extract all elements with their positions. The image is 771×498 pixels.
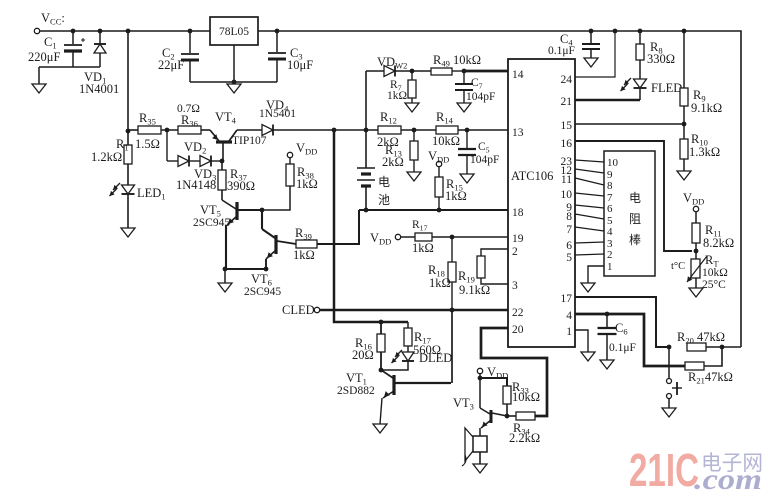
svg-text:2: 2 [607,249,613,261]
svg-text:1: 1 [566,326,572,338]
svg-text:VT4: VT4 [215,110,237,126]
svg-text:3: 3 [512,280,518,292]
wire pin 17 path [575,297,669,347]
svg-text:1: 1 [607,261,613,273]
wire VDD to R33 and VT3 base [479,374,481,378]
resistor network bar body [604,151,655,276]
svg-text:R49 10kΩ: R49 10kΩ [433,53,481,69]
wire VD4-node feed down to R16 R17 [334,130,408,322]
svg-text:0.1μF: 0.1μF [609,342,636,354]
svg-text:22: 22 [512,307,524,319]
ground below C1 [32,84,46,93]
svg-text:LED1: LED1 [137,186,166,202]
svg-text:21: 21 [561,96,573,108]
ground below VT5 emitter [218,283,232,292]
LED LED1 [122,185,135,194]
svg-text:R36: R36 [181,113,198,129]
capacitor C2 [189,31,191,53]
svg-text:25°C: 25°C [702,279,726,291]
resistor R12 [378,126,401,134]
svg-text:1kΩ: 1kΩ [445,189,467,203]
resistor R33 [503,386,511,404]
ground below pin 1 [581,352,595,361]
wire C1-VD1 bottom to ground [39,66,100,68]
svg-text:VDD: VDD [428,149,449,165]
resistor R11 [695,212,697,223]
wire collector node to R38 [262,186,290,210]
svg-text:8.2kΩ: 8.2kΩ [703,236,734,250]
diode VD2 [166,130,168,161]
svg-text:ATC106: ATC106 [511,169,553,183]
svg-text:阻: 阻 [629,212,641,226]
svg-text:C5: C5 [478,141,490,155]
node VDD terminal above R15 [436,161,441,166]
svg-text:2SD882: 2SD882 [337,385,375,397]
IC U1 ATC106 body [508,59,575,347]
wire pin 20 loop to R34 [481,328,547,416]
node VT5 collector junction [260,208,265,213]
diode VD4 [262,125,273,136]
resistor R19 [477,256,485,278]
capacitor C5 [466,130,468,148]
svg-text:VDD: VDD [683,191,704,207]
regulator U 78L05 [210,17,258,45]
svg-text:1kΩ: 1kΩ [293,248,315,262]
svg-text:13: 13 [512,127,524,139]
svg-text:C6: C6 [615,321,628,337]
wire to IC pin 14 [464,70,508,73]
resistor R34 [507,415,516,417]
svg-text:20Ω: 20Ω [352,348,374,362]
svg-text:14: 14 [512,69,524,81]
svg-text:1kΩ: 1kΩ [429,276,451,290]
svg-text:C1: C1 [44,35,57,51]
svg-text:10kΩ: 10kΩ [432,134,460,148]
resistor R36 [178,126,201,134]
wire CLED junction down to VT1 collector [451,310,453,383]
capacitor C3 [276,31,278,52]
resistor R8 [638,29,643,34]
svg-text:17: 17 [561,293,573,305]
svg-text:4: 4 [566,310,572,322]
wire top rail left segment [40,30,210,32]
wire left rail [127,31,129,131]
ground below R10 [677,171,691,180]
svg-text:5: 5 [566,252,572,264]
resistor R15 [438,167,440,177]
svg-text:1kΩ: 1kΩ [296,177,318,191]
LED DLED [402,352,414,361]
wire battery positive riser [365,71,367,168]
resistor R20 [667,345,672,350]
svg-text:R20 47kΩ: R20 47kΩ [677,330,725,346]
svg-text:电: 电 [378,175,390,189]
wire C2-C3 bottom with regulator ground stub [190,81,277,83]
svg-text:VT3: VT3 [453,396,474,412]
wire pin 4 path [575,314,685,366]
resistor R37 [221,161,223,170]
svg-text:2SC945: 2SC945 [244,286,281,298]
wire VD4 to R12 [273,129,378,131]
svg-text:2.2kΩ: 2.2kΩ [509,431,540,445]
svg-text:10kΩ: 10kΩ [512,390,540,404]
svg-text:CLED: CLED [282,303,315,317]
node CLED terminal [314,307,319,312]
svg-text:2SC945: 2SC945 [193,217,230,229]
node VCC terminal [34,28,39,33]
svg-text:9.1kΩ: 9.1kΩ [691,101,722,115]
svg-text:104pF: 104pF [466,91,495,103]
svg-text:电: 电 [629,191,641,205]
svg-text:R14: R14 [436,110,454,126]
node VDD terminal above R11 [693,206,698,211]
resistor R21 [685,362,704,370]
svg-text:t°C: t°C [671,261,685,272]
resistor R35 [128,129,138,131]
svg-text:1kΩ: 1kΩ [412,241,434,255]
node VDD terminal VT3 [477,368,482,373]
svg-text:9.1kΩ: 9.1kΩ [459,283,490,297]
svg-text:VDD: VDD [296,141,317,157]
diode VD3 [189,160,200,162]
svg-text:24: 24 [561,74,573,86]
ground below bar pin1 [581,283,595,292]
svg-text:10: 10 [607,157,619,169]
resistor R17 560 [407,322,409,328]
ground below RT [689,288,703,297]
svg-text:21IC: 21IC [629,444,699,496]
svg-text:18: 18 [512,207,524,219]
thermistor RT [695,251,697,259]
speaker [473,436,487,452]
capacitor C7 [463,71,465,83]
resistor R14 [436,126,458,134]
svg-text:棒: 棒 [629,233,641,247]
svg-text:1.2kΩ: 1.2kΩ [91,150,122,164]
wires IC to resistor bar [575,160,604,162]
resistor R16 [380,322,382,334]
ground below C4 [584,58,598,67]
capacitor C6 [606,314,608,327]
resistor R10 [683,124,685,139]
svg-text:6: 6 [566,240,572,252]
svg-text:.com: .com [694,463,762,496]
svg-text:2: 2 [512,246,518,258]
svg-text:1N4001: 1N4001 [79,82,119,96]
capacitor C4 [589,29,594,34]
switch S [668,347,670,378]
node VDD terminal above R38 [287,152,292,157]
ground below C6 [600,360,614,369]
svg-text:R12: R12 [380,110,397,126]
svg-text:10μF: 10μF [287,58,313,72]
ground below R13 [407,172,421,181]
svg-text:池: 池 [378,193,390,207]
wire VT4 collector to VD4 [237,129,262,131]
svg-text:10kΩ: 10kΩ [702,267,728,279]
svg-text:8: 8 [566,211,572,223]
svg-text:R35: R35 [139,111,156,127]
resistor R38 [286,164,294,186]
svg-text:FLED: FLED [651,81,682,95]
svg-text:6: 6 [607,203,613,215]
svg-text:R39: R39 [295,226,312,242]
wire CLED row to IC pin 22 [320,309,508,311]
svg-text:R2147kΩ: R2147kΩ [688,370,733,386]
wire pin 1 to ground [575,330,588,352]
resistor R18 [451,237,453,262]
resistor R17 1k [401,236,415,238]
ground below 78L05 [227,84,241,93]
svg-text:15: 15 [561,120,573,132]
resistor R7 [411,71,413,80]
transistor VT6 2SC945 [261,210,263,229]
svg-text:390Ω: 390Ω [227,179,255,193]
resistor R9 [682,29,687,34]
svg-text:VCC:: VCC: [41,11,65,27]
wire VT5/VT6 emitters to ground [224,268,266,270]
diode VD1 [99,31,101,43]
svg-text:VDD: VDD [370,231,391,247]
svg-text:TIP107: TIP107 [232,135,267,147]
ground below LED1 [121,228,135,237]
svg-text:VDW2: VDW2 [377,55,407,71]
svg-text:20: 20 [512,324,524,336]
wire bar pin1 to ground [588,266,604,283]
svg-text:11: 11 [561,174,572,186]
svg-text:10: 10 [561,189,573,201]
svg-text:104pF: 104pF [470,154,499,166]
ground below VT1 [373,424,387,433]
wire pin 24 to top rail [613,29,618,34]
svg-text:16: 16 [561,138,573,150]
svg-text:R17: R17 [412,219,428,233]
wire R39 right to battery-minus row [317,210,359,244]
wire top rail right segment to right rail corner [258,31,741,347]
resistor R1 [127,131,129,145]
transistor VT5 2SC945 [222,200,236,209]
svg-text:330Ω: 330Ω [647,52,675,66]
transistor VT3 [480,408,490,414]
svg-text:2kΩ: 2kΩ [382,155,404,169]
resistor R13 [413,130,415,141]
wire pin 18 row [359,209,508,211]
svg-text:1.3kΩ: 1.3kΩ [689,145,720,159]
capacitor C1 [72,31,74,44]
svg-text:1N4148: 1N4148 [176,178,216,192]
svg-text:4: 4 [607,226,613,238]
svg-text:DLED: DLED [419,351,452,365]
transistor VT4 TIP107 [210,130,219,141]
resistor R49 [395,70,431,72]
wire pin 21 row [575,99,640,102]
wire pin 2 jog [481,249,508,256]
svg-text:22μF: 22μF [158,58,184,72]
svg-text:19: 19 [512,233,524,245]
ground below C5 [460,174,474,183]
ground below speaker [473,464,487,473]
battery GB [357,167,375,169]
LED FLED [634,79,647,88]
svg-text:8: 8 [607,180,613,192]
ground below switch [662,408,676,417]
transistor VT1 2SD882 [381,370,393,378]
svg-text:C7: C7 [471,77,483,91]
svg-text:VD2: VD2 [184,140,206,156]
svg-text:220μF: 220μF [28,50,60,64]
wire pin 15 row [575,123,684,125]
svg-text:78L05: 78L05 [219,26,249,38]
wire pin 16 to thermistor junction [575,141,692,251]
resistor R39 [296,240,317,248]
svg-text:1N5401: 1N5401 [259,108,296,120]
ground below R7 [405,103,419,112]
svg-text:1.5Ω: 1.5Ω [135,137,160,151]
svg-text:1kΩ: 1kΩ [387,90,407,102]
diode VDW2 [366,70,384,72]
svg-text:0.1μF: 0.1μF [548,45,575,57]
node VDD terminal pin19 [395,234,400,239]
ground below C7 [457,103,471,112]
svg-text:7: 7 [566,224,572,236]
